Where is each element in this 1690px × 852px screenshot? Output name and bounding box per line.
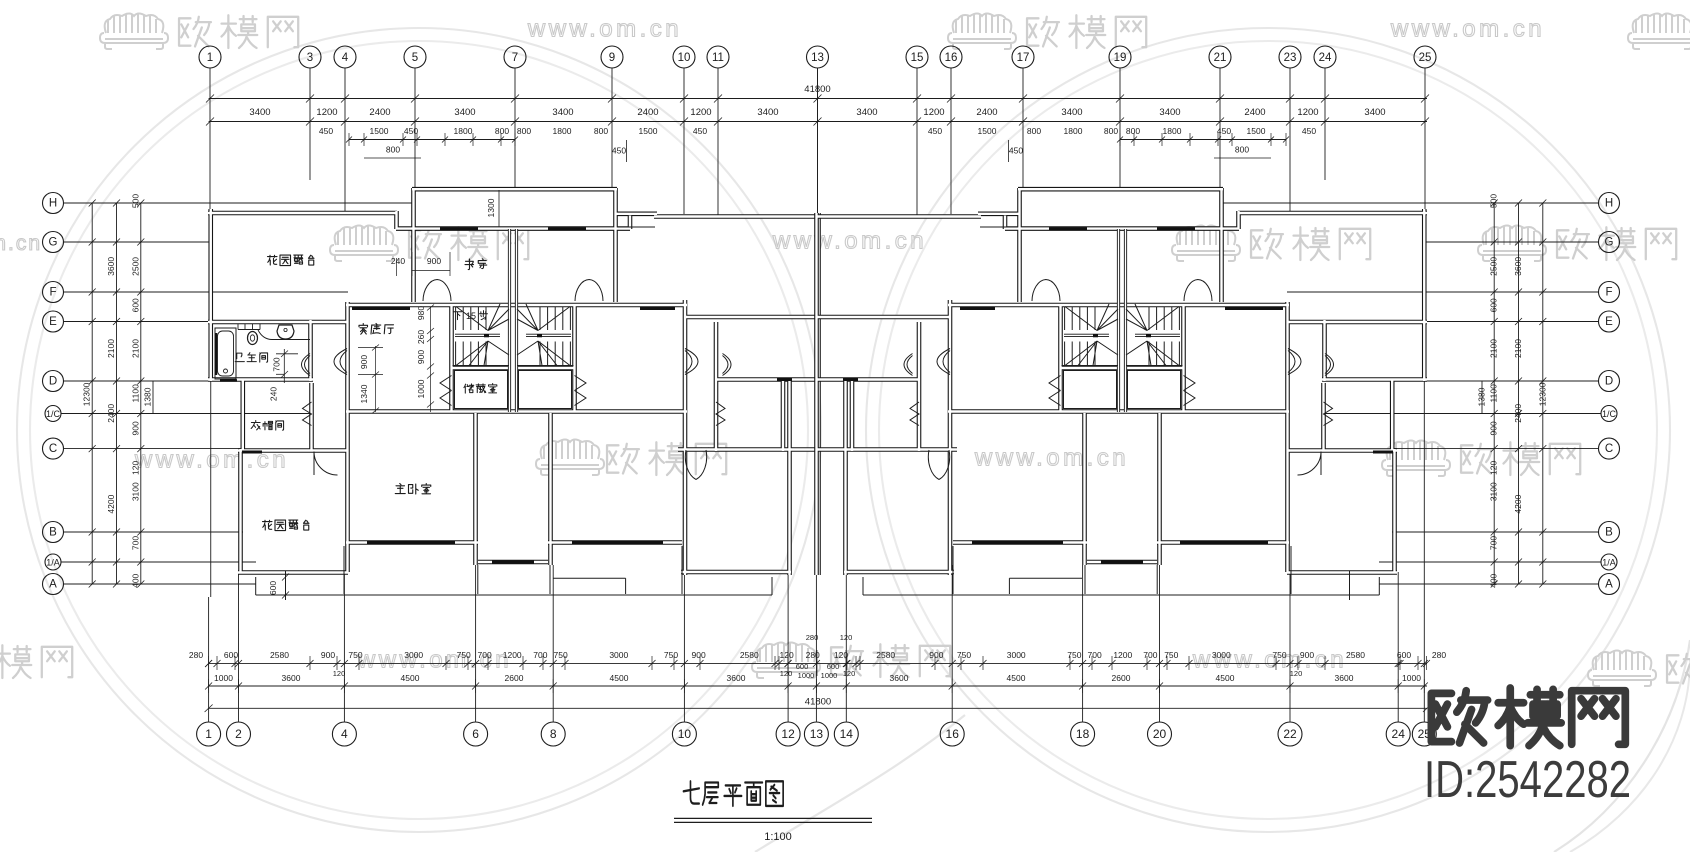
svg-text:C: C: [1605, 443, 1613, 455]
svg-text:120: 120: [780, 669, 793, 678]
svg-text:2600: 2600: [1112, 673, 1131, 683]
svg-text:10: 10: [678, 52, 691, 64]
svg-text:2400: 2400: [1244, 107, 1265, 118]
svg-text:13: 13: [810, 727, 824, 741]
svg-text:3100: 3100: [130, 482, 140, 501]
svg-text:900: 900: [692, 650, 706, 660]
svg-text:3000: 3000: [404, 650, 423, 660]
svg-text:3000: 3000: [1212, 650, 1231, 660]
svg-text:F: F: [49, 287, 56, 299]
svg-text:800: 800: [386, 145, 400, 155]
svg-text:3000: 3000: [1007, 650, 1026, 660]
left dimension columns: [91, 203, 93, 584]
svg-text:120: 120: [843, 669, 856, 678]
svg-text:900: 900: [1300, 650, 1314, 660]
svg-text:3400: 3400: [1061, 107, 1082, 118]
svg-text:900: 900: [130, 421, 140, 435]
svg-text:41800: 41800: [804, 84, 830, 95]
walls mirrored right unit: [817, 188, 1428, 575]
svg-text:450: 450: [1302, 126, 1316, 136]
label master bedroom: [395, 484, 405, 494]
svg-text:750: 750: [457, 650, 471, 660]
svg-text:1/A: 1/A: [1602, 558, 1616, 568]
svg-text:3400: 3400: [249, 107, 270, 118]
svg-text:3: 3: [307, 52, 313, 64]
svg-text:600: 600: [796, 662, 809, 671]
label family hall: [359, 324, 368, 335]
svg-text:750: 750: [957, 650, 971, 660]
svg-text:120: 120: [333, 669, 346, 678]
big logo: [1431, 691, 1487, 743]
svg-text:24: 24: [1319, 52, 1332, 64]
svg-text:1200: 1200: [316, 107, 337, 118]
svg-text:450: 450: [1009, 146, 1023, 156]
svg-text:240: 240: [391, 256, 405, 266]
svg-text:450: 450: [693, 126, 707, 136]
svg-text:5: 5: [412, 52, 418, 64]
svg-text:3600: 3600: [890, 673, 909, 683]
svg-text:280: 280: [806, 650, 820, 660]
svg-text:1380: 1380: [1477, 387, 1487, 406]
svg-text:4500: 4500: [1216, 673, 1235, 683]
axis circles top: [199, 46, 221, 68]
svg-text:2100: 2100: [106, 339, 116, 358]
svg-text:1: 1: [205, 727, 212, 741]
svg-text:12300: 12300: [82, 382, 92, 406]
svg-text:H: H: [1605, 198, 1613, 210]
svg-text:www.om.cn: www.om.cn: [527, 16, 682, 43]
svg-text:800: 800: [594, 126, 608, 136]
svg-text:4: 4: [342, 52, 349, 64]
svg-text:1500: 1500: [370, 126, 389, 136]
svg-text:280: 280: [806, 633, 819, 642]
svg-text:14: 14: [840, 727, 854, 741]
svg-text:120: 120: [840, 633, 853, 642]
svg-text:3400: 3400: [1159, 107, 1180, 118]
svg-text:3600: 3600: [727, 673, 746, 683]
label garden terrace SW: [263, 520, 273, 530]
svg-text:3600: 3600: [282, 673, 301, 683]
svg-text:700: 700: [1489, 536, 1499, 550]
svg-text:1200: 1200: [690, 107, 711, 118]
svg-text:1000: 1000: [214, 673, 233, 683]
axis circles right: [1599, 193, 1620, 214]
svg-text:1100: 1100: [1489, 384, 1499, 403]
svg-text:41800: 41800: [805, 697, 831, 708]
label bathroom: [235, 353, 244, 362]
svg-text:om.cn: om.cn: [0, 232, 42, 255]
svg-text:800: 800: [1235, 145, 1249, 155]
svg-text:www.om.cn: www.om.cn: [974, 445, 1129, 472]
svg-text:1100: 1100: [130, 384, 140, 403]
svg-text:2400: 2400: [369, 107, 390, 118]
axis circles bottom: [197, 722, 221, 746]
svg-text:900: 900: [321, 650, 335, 660]
svg-text:3400: 3400: [856, 107, 877, 118]
svg-text:1500: 1500: [1247, 126, 1266, 136]
svg-text:F: F: [1605, 287, 1612, 299]
svg-text:900: 900: [416, 350, 426, 364]
svg-text:1/A: 1/A: [46, 558, 60, 568]
svg-text:2600: 2600: [505, 673, 524, 683]
axis circles left: [43, 193, 64, 214]
svg-text:4500: 4500: [1007, 673, 1026, 683]
svg-text:20: 20: [1153, 727, 1167, 741]
svg-text:2580: 2580: [1346, 650, 1365, 660]
svg-text:2400: 2400: [637, 107, 658, 118]
svg-text:450: 450: [404, 126, 418, 136]
svg-text:700: 700: [272, 357, 282, 371]
svg-text:450: 450: [319, 126, 333, 136]
stairs and thin details: [256, 227, 772, 600]
outer and interior walls: terraces, study bay, living hall, stair core, bedrooms, bathroom, closet: [208, 188, 819, 575]
svg-text:1500: 1500: [978, 126, 997, 136]
svg-text:1800: 1800: [454, 126, 473, 136]
svg-text:450: 450: [928, 126, 942, 136]
svg-text:G: G: [49, 237, 58, 249]
svg-text:1000: 1000: [1402, 673, 1421, 683]
window bands: [242, 229, 792, 562]
svg-text:1000: 1000: [821, 671, 838, 680]
svg-text:600: 600: [268, 581, 278, 595]
svg-text:3400: 3400: [552, 107, 573, 118]
label study: [465, 259, 474, 270]
svg-text:700: 700: [533, 650, 547, 660]
svg-text:A: A: [49, 579, 57, 591]
svg-text:2500: 2500: [130, 257, 140, 276]
svg-text:D: D: [1605, 376, 1613, 388]
svg-text:1800: 1800: [553, 126, 572, 136]
svg-text:B: B: [1605, 527, 1613, 539]
label cloakroom: [251, 420, 260, 429]
svg-text:3600: 3600: [1335, 673, 1354, 683]
svg-text:1: 1: [207, 52, 213, 64]
svg-text:4200: 4200: [106, 494, 116, 513]
svg-text:4500: 4500: [610, 673, 629, 683]
svg-text:2400: 2400: [1513, 404, 1523, 423]
svg-text:E: E: [49, 316, 57, 328]
svg-text:700: 700: [478, 650, 492, 660]
bathtub: [215, 328, 236, 379]
svg-text:2100: 2100: [1513, 339, 1523, 358]
svg-text:240: 240: [269, 387, 279, 401]
title: [683, 781, 783, 806]
svg-text:D: D: [49, 376, 57, 388]
svg-text:10: 10: [678, 727, 692, 741]
svg-text:19: 19: [1114, 52, 1127, 64]
svg-text:1800: 1800: [1064, 126, 1083, 136]
svg-text:800: 800: [495, 126, 509, 136]
svg-text:22: 22: [1283, 727, 1297, 741]
svg-text:3000: 3000: [609, 650, 628, 660]
svg-text:1200: 1200: [1297, 107, 1318, 118]
svg-text:120: 120: [1290, 669, 1303, 678]
svg-text:800: 800: [1104, 126, 1118, 136]
sink: [277, 325, 294, 339]
svg-text:9: 9: [609, 52, 615, 64]
svg-text:7: 7: [512, 52, 518, 64]
svg-text:600: 600: [827, 662, 840, 671]
svg-text:1800: 1800: [1163, 126, 1182, 136]
svg-text:120: 120: [130, 461, 140, 475]
svg-text:6: 6: [472, 727, 479, 741]
svg-text:3600: 3600: [1513, 257, 1523, 276]
svg-text:750: 750: [1164, 650, 1178, 660]
svg-text:24: 24: [1392, 727, 1406, 741]
svg-text:B: B: [49, 527, 57, 539]
bathroom window band: [238, 329, 260, 331]
svg-text:8: 8: [550, 727, 557, 741]
svg-text:500: 500: [1489, 194, 1499, 208]
svg-text:800: 800: [1027, 126, 1041, 136]
svg-text:3100: 3100: [1489, 482, 1499, 501]
svg-text:1200: 1200: [503, 650, 522, 660]
tub dark edge: [215, 333, 217, 375]
watermark row1: [100, 14, 168, 50]
svg-text:750: 750: [664, 650, 678, 660]
svg-text:3400: 3400: [757, 107, 778, 118]
svg-text:www.om.cn: www.om.cn: [1390, 16, 1545, 43]
svg-text:2500: 2500: [1489, 257, 1499, 276]
svg-text:18: 18: [1076, 727, 1090, 741]
svg-text:1200: 1200: [923, 107, 944, 118]
toilet: [248, 332, 258, 345]
svg-text:21: 21: [1214, 52, 1227, 64]
svg-text:900: 900: [359, 355, 369, 369]
svg-text:700: 700: [1143, 650, 1157, 660]
svg-text:17: 17: [1017, 52, 1030, 64]
bottom dimension lines: [209, 663, 1427, 665]
svg-text:E: E: [1605, 316, 1613, 328]
svg-text:2400: 2400: [976, 107, 997, 118]
svg-text:G: G: [1605, 237, 1614, 249]
svg-text:600: 600: [1397, 650, 1411, 660]
svg-text:600: 600: [224, 650, 238, 660]
svg-text:2400: 2400: [106, 404, 116, 423]
svg-text:1:100: 1:100: [764, 831, 792, 843]
svg-text:980: 980: [416, 306, 426, 320]
svg-text:2100: 2100: [1489, 339, 1499, 358]
svg-text:12300: 12300: [1537, 382, 1547, 406]
axis leaders through plan: [210, 381, 212, 597]
svg-text:4200: 4200: [1513, 494, 1523, 513]
svg-text:450: 450: [1217, 126, 1231, 136]
svg-text:15: 15: [466, 311, 476, 321]
svg-text:450: 450: [612, 146, 626, 156]
label storage: [464, 384, 474, 393]
svg-text:750: 750: [554, 650, 568, 660]
svg-text:2: 2: [235, 727, 242, 741]
top dimension lines: [209, 98, 1427, 100]
svg-text:1000: 1000: [798, 671, 815, 680]
svg-text:25: 25: [1419, 52, 1432, 64]
svg-text:750: 750: [348, 650, 362, 660]
svg-text:1200: 1200: [1113, 650, 1132, 660]
label stair down 15 steps: [453, 312, 461, 320]
svg-text:4: 4: [341, 727, 348, 741]
svg-text:2580: 2580: [270, 650, 289, 660]
counter edge: [258, 330, 310, 340]
svg-text:900: 900: [1489, 421, 1499, 435]
700 dim lines: [283, 349, 285, 383]
svg-text:600: 600: [130, 298, 140, 312]
svg-text:1/C: 1/C: [46, 409, 61, 419]
svg-text:1/C: 1/C: [1602, 409, 1617, 419]
svg-text:400: 400: [1489, 573, 1499, 587]
svg-text:800: 800: [517, 126, 531, 136]
svg-text:2100: 2100: [130, 339, 140, 358]
svg-text:www.om.cn: www.om.cn: [772, 228, 927, 255]
svg-text:A: A: [1605, 579, 1613, 591]
svg-text:500: 500: [130, 194, 140, 208]
stairs and doors mirrored right unit: [863, 227, 1379, 600]
svg-text:800: 800: [1126, 126, 1140, 136]
svg-text:4500: 4500: [401, 673, 420, 683]
svg-text:1340: 1340: [359, 384, 369, 403]
svg-text:3600: 3600: [106, 257, 116, 276]
svg-text:ID:2542282: ID:2542282: [1424, 751, 1631, 809]
svg-text:700: 700: [1088, 650, 1102, 660]
svg-text:400: 400: [130, 573, 140, 587]
svg-text:H: H: [49, 198, 57, 210]
svg-text:120: 120: [780, 650, 794, 660]
svg-text:900: 900: [929, 650, 943, 660]
svg-text:16: 16: [946, 727, 960, 741]
svg-text:1380: 1380: [143, 387, 153, 406]
svg-text:15: 15: [911, 52, 924, 64]
svg-text:750: 750: [1067, 650, 1081, 660]
svg-text:750: 750: [1272, 650, 1286, 660]
window bands mirrored right unit: [843, 229, 1393, 562]
svg-text:2580: 2580: [876, 650, 895, 660]
svg-text:3400: 3400: [1364, 107, 1385, 118]
svg-text:11: 11: [712, 52, 724, 64]
svg-text:1500: 1500: [639, 126, 658, 136]
svg-text:16: 16: [945, 52, 958, 64]
svg-text:600: 600: [1489, 298, 1499, 312]
svg-text:12: 12: [781, 727, 795, 741]
svg-text:280: 280: [189, 650, 203, 660]
svg-text:120: 120: [1489, 461, 1499, 475]
svg-text:280: 280: [1432, 650, 1446, 660]
svg-text:700: 700: [130, 536, 140, 550]
svg-text:2580: 2580: [740, 650, 759, 660]
label garden terrace NW: [268, 255, 278, 265]
svg-text:900: 900: [427, 256, 441, 266]
svg-text:1000: 1000: [416, 379, 426, 398]
svg-text:13: 13: [811, 52, 824, 64]
svg-text:C: C: [49, 443, 57, 455]
svg-text:1300: 1300: [486, 198, 496, 217]
svg-text:260: 260: [416, 330, 426, 344]
svg-text:3400: 3400: [454, 107, 475, 118]
svg-text:23: 23: [1284, 52, 1297, 64]
